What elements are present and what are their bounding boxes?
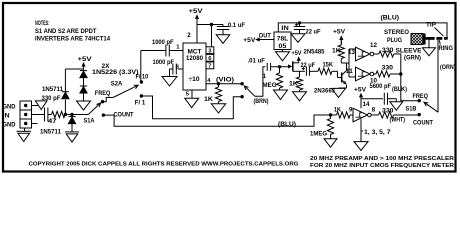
svg-text:1K: 1K — [289, 81, 299, 88]
svg-text:8: 8 — [372, 107, 376, 113]
svg-text:(ORN): (ORN) — [440, 64, 456, 71]
svg-text:14: 14 — [363, 102, 371, 108]
svg-text:330: 330 — [382, 66, 394, 72]
svg-text:47: 47 — [48, 118, 57, 125]
svg-text:OUT: OUT — [259, 32, 271, 39]
svg-text:S2A: S2A — [111, 80, 123, 87]
svg-text:15K: 15K — [323, 62, 334, 69]
svg-text:(BLU): (BLU) — [278, 121, 296, 128]
svg-text:5600 pF: 5600 pF — [370, 83, 392, 90]
svg-text:12080: 12080 — [186, 56, 204, 62]
svg-text:1MEG: 1MEG — [310, 130, 327, 137]
svg-text:COUNT: COUNT — [114, 112, 134, 119]
svg-text:COUNT: COUNT — [413, 119, 433, 126]
svg-text:S1B: S1B — [406, 106, 417, 113]
svg-text:(BRN): (BRN) — [254, 98, 269, 105]
svg-text:1: 1 — [263, 73, 267, 80]
svg-text:FREQ: FREQ — [95, 90, 111, 97]
svg-text:NOTES:: NOTES: — [35, 20, 50, 27]
svg-text:+5V: +5V — [333, 29, 346, 36]
svg-text:+5V: +5V — [243, 37, 256, 44]
svg-text:COPYRIGHT 2005 DICK CAPPELS AL: COPYRIGHT 2005 DICK CAPPELS ALL RIGHTS R… — [29, 162, 299, 168]
svg-text:+5V: +5V — [354, 87, 367, 94]
svg-text:F/ 10: F/ 10 — [136, 73, 149, 80]
svg-text:FOR 20 MHZ INPUT CMOS FREQUENC: FOR 20 MHZ INPUT CMOS FREQUENCY METER — [310, 163, 454, 169]
svg-text:2N3663: 2N3663 — [314, 88, 336, 95]
svg-text:FREQ: FREQ — [413, 93, 429, 100]
svg-text:F/ 1: F/ 1 — [135, 99, 146, 106]
svg-text:S1 AND S2 ARE DPDT: S1 AND S2 ARE DPDT — [35, 28, 97, 35]
svg-text:1: 1 — [176, 45, 180, 51]
svg-text:11: 11 — [346, 69, 354, 75]
svg-text:(GRN): (GRN) — [404, 54, 421, 61]
svg-text:(WHT): (WHT) — [390, 117, 406, 124]
svg-text:SLEEVE: SLEEVE — [396, 47, 422, 54]
svg-text:GND: GND — [3, 122, 17, 128]
svg-text:IN: IN — [3, 113, 10, 119]
svg-text:(BLK): (BLK) — [392, 86, 407, 93]
svg-text:S1A: S1A — [84, 117, 95, 124]
svg-text:05: 05 — [279, 44, 288, 50]
svg-text:+5V: +5V — [189, 8, 204, 15]
svg-text:20 MHZ PREAMP AND > 100 MHZ PR: 20 MHZ PREAMP AND > 100 MHZ PRESCALER — [310, 156, 454, 162]
svg-text:2: 2 — [187, 32, 191, 39]
svg-text:12: 12 — [370, 43, 378, 49]
svg-text:22 uF: 22 uF — [306, 29, 321, 36]
svg-text:.01 uF: .01 uF — [248, 58, 266, 65]
svg-text:0.1 uF: 0.1 uF — [228, 22, 245, 29]
svg-text:IN: IN — [281, 25, 289, 32]
svg-text:GND: GND — [3, 104, 17, 110]
svg-text:9: 9 — [349, 107, 353, 113]
svg-text:1K: 1K — [204, 96, 214, 103]
svg-text:STEREO: STEREO — [384, 29, 409, 36]
svg-text:PLUG: PLUG — [387, 37, 402, 44]
svg-text:RING: RING — [439, 45, 454, 52]
svg-text:÷10: ÷10 — [189, 76, 201, 83]
svg-text:1N5711: 1N5711 — [42, 86, 64, 93]
svg-text:5: 5 — [186, 91, 190, 97]
svg-text:22 uF: 22 uF — [301, 62, 316, 69]
svg-text:TIP: TIP — [426, 21, 436, 28]
svg-text:330: 330 — [382, 108, 394, 114]
svg-text:MCT: MCT — [188, 50, 202, 56]
svg-text:1N5226 (3.3V): 1N5226 (3.3V) — [92, 69, 139, 76]
svg-text:1, 3, 5, 7: 1, 3, 5, 7 — [364, 129, 391, 136]
svg-text:1000 pF: 1000 pF — [153, 59, 175, 66]
svg-text:INVERTERS ARE 74HCT14: INVERTERS ARE 74HCT14 — [35, 36, 111, 43]
svg-text:1N5711: 1N5711 — [40, 129, 62, 136]
svg-text:+5V: +5V — [292, 50, 303, 57]
svg-text:2N5485: 2N5485 — [304, 48, 326, 55]
svg-text:13: 13 — [348, 50, 356, 56]
svg-text:78L: 78L — [277, 37, 289, 43]
svg-text:(BLU): (BLU) — [381, 15, 400, 22]
svg-text:MEG: MEG — [263, 82, 277, 89]
svg-text:7: 7 — [208, 64, 211, 70]
svg-text:1000 pF: 1000 pF — [152, 39, 174, 46]
svg-text:330 pF: 330 pF — [42, 95, 61, 102]
svg-text:+5V: +5V — [78, 56, 93, 63]
